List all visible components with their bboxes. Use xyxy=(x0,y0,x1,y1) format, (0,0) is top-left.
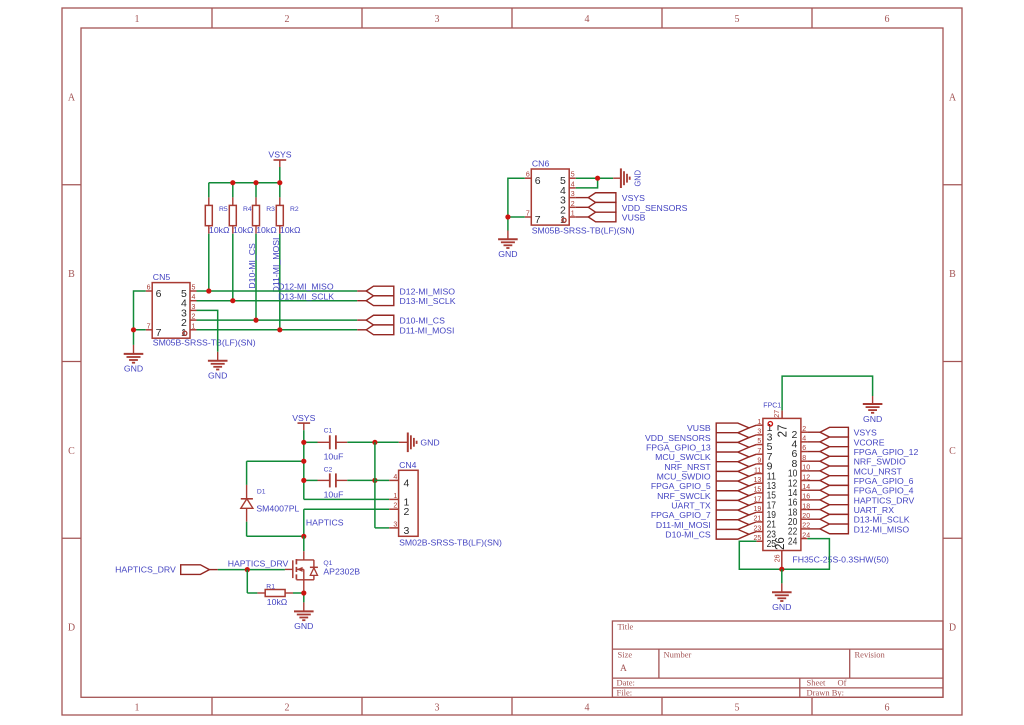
wire R2 to D11 net, label D11-MI_MOSI xyxy=(271,234,281,330)
svg-text:VUSB: VUSB xyxy=(687,423,711,433)
svg-text:Revision: Revision xyxy=(855,650,886,660)
svg-text:D13-MI_SCLK: D13-MI_SCLK xyxy=(400,296,456,306)
junction C2/CN4 pin4 xyxy=(372,478,377,483)
svg-text:2: 2 xyxy=(571,201,575,208)
svg-text:4: 4 xyxy=(404,477,410,489)
svg-text:5: 5 xyxy=(192,285,196,292)
svg-text:6: 6 xyxy=(885,703,890,714)
svg-text:4: 4 xyxy=(571,181,575,188)
svg-text:D10-MI_CS: D10-MI_CS xyxy=(400,316,446,326)
svg-text:7: 7 xyxy=(156,327,162,339)
svg-text:D10-MI_CS: D10-MI_CS xyxy=(247,243,257,289)
flag UART_RX (FPC1 pin 18) xyxy=(807,505,894,515)
junction C1/GND column xyxy=(372,440,377,445)
svg-text:SM02B-SRSS-TB(LF)(SN): SM02B-SRSS-TB(LF)(SN) xyxy=(399,538,502,548)
junction VSYS/D1 xyxy=(301,459,306,464)
svg-text:2: 2 xyxy=(404,506,410,518)
svg-text:3: 3 xyxy=(757,429,761,436)
svg-text:7: 7 xyxy=(757,448,761,455)
wire net D11-MI_MOSI xyxy=(197,329,358,331)
flag FPGA_GPIO_13 (FPC1 pin 5) xyxy=(646,442,756,452)
svg-text:10kΩ: 10kΩ xyxy=(280,225,301,235)
svg-text:23: 23 xyxy=(754,525,762,532)
svg-text:2: 2 xyxy=(393,503,397,510)
power VSYS (pullups) xyxy=(268,149,291,167)
svg-text:Drawn By:: Drawn By: xyxy=(807,687,845,697)
svg-text:3: 3 xyxy=(404,525,410,537)
svg-text:17: 17 xyxy=(754,496,762,503)
connector FPC1 FH35C-25S-0.3SHW(50) xyxy=(763,403,889,565)
junction HAPTICS node xyxy=(301,534,306,539)
wire pin27 to GND xyxy=(782,376,873,410)
svg-text:6: 6 xyxy=(147,285,151,292)
svg-text:7: 7 xyxy=(147,323,151,330)
svg-text:6: 6 xyxy=(535,175,541,187)
junction VSYS/C1 xyxy=(301,440,306,445)
flag FPGA_GPIO_7 (FPC1 pin 19) xyxy=(651,510,757,520)
svg-text:UART_RX: UART_RX xyxy=(854,505,895,515)
junction R4/pin4 xyxy=(230,298,235,303)
svg-text:10kΩ: 10kΩ xyxy=(256,225,277,235)
svg-text:3: 3 xyxy=(435,14,440,25)
junction CN6 pin7/GND xyxy=(505,214,510,219)
svg-text:Of: Of xyxy=(838,678,847,688)
flag VUSB (CN6 pin1) xyxy=(576,212,646,222)
flag VUSB (FPC1 pin 1) xyxy=(687,423,756,433)
svg-text:2: 2 xyxy=(285,14,290,25)
svg-text:C: C xyxy=(68,446,75,457)
ground GND (Q1 source) xyxy=(294,602,314,631)
svg-text:3: 3 xyxy=(571,191,575,198)
svg-text:B: B xyxy=(949,269,956,280)
svg-text:D: D xyxy=(949,623,956,634)
svg-text:D11-MI_MOSI: D11-MI_MOSI xyxy=(656,520,711,530)
svg-text:1: 1 xyxy=(192,323,196,330)
svg-text:GND: GND xyxy=(124,364,143,374)
svg-text:5: 5 xyxy=(571,172,575,179)
svg-text:Title: Title xyxy=(618,622,634,632)
wire HAPTICS_DRV to gate, label xyxy=(218,558,289,569)
svg-text:1: 1 xyxy=(560,214,566,226)
capacitor C1 10uF xyxy=(304,427,348,461)
svg-text:D12-MI_MISO: D12-MI_MISO xyxy=(278,282,334,292)
svg-text:B: B xyxy=(68,269,75,280)
svg-text:1: 1 xyxy=(135,14,140,25)
flag FPGA_GPIO_12 (FPC1 pin 6) xyxy=(807,447,918,457)
svg-text:NRF_SWCLK: NRF_SWCLK xyxy=(657,491,711,501)
svg-text:GND: GND xyxy=(633,170,643,187)
wire pin26 to GND xyxy=(781,569,783,583)
svg-text:10kΩ: 10kΩ xyxy=(267,597,288,607)
svg-text:VSYS: VSYS xyxy=(268,149,291,159)
junction source/R1/GND xyxy=(301,590,306,595)
ground GND (FPC1 bottom) xyxy=(772,583,792,612)
svg-text:SM05B-SRSS-TB(LF)(SN): SM05B-SRSS-TB(LF)(SN) xyxy=(532,226,635,236)
svg-text:5: 5 xyxy=(735,14,740,25)
svg-text:UART_TX: UART_TX xyxy=(671,500,711,510)
svg-text:7: 7 xyxy=(526,211,530,218)
svg-text:D11-MI_MOSI: D11-MI_MOSI xyxy=(400,325,455,335)
FPC1 left pins 1..25 xyxy=(754,419,777,550)
wire VSYS column xyxy=(304,430,389,499)
svg-text:FPGA_GPIO_5: FPGA_GPIO_5 xyxy=(651,481,711,491)
wire C1 to GND xyxy=(347,441,399,443)
svg-text:D12-MI_MISO: D12-MI_MISO xyxy=(400,287,456,297)
svg-text:D13-MI_SCLK: D13-MI_SCLK xyxy=(278,292,334,302)
svg-text:VCORE: VCORE xyxy=(854,437,885,447)
svg-text:C1: C1 xyxy=(324,427,333,434)
svg-text:CN5: CN5 xyxy=(153,272,171,282)
svg-text:NRF_NRST: NRF_NRST xyxy=(664,462,711,472)
svg-text:1: 1 xyxy=(393,493,397,500)
svg-text:HAPTICS_DRV: HAPTICS_DRV xyxy=(854,495,915,505)
svg-text:13: 13 xyxy=(754,477,762,484)
svg-text:VUSB: VUSB xyxy=(622,213,646,223)
svg-text:5: 5 xyxy=(757,438,761,445)
FPC1 right pins 2..24 xyxy=(788,426,810,547)
wire HAPTICS to Q1 drain xyxy=(303,536,305,551)
svg-text:5: 5 xyxy=(735,703,740,714)
svg-text:3: 3 xyxy=(435,703,440,714)
svg-text:GND: GND xyxy=(294,621,313,631)
svg-text:VSYS: VSYS xyxy=(622,193,645,203)
wire gate to R1 xyxy=(247,570,257,593)
svg-text:CN4: CN4 xyxy=(399,460,417,470)
flag D13-MI_SCLK xyxy=(357,296,456,306)
FPC1 pin 27 (top) xyxy=(774,410,790,438)
junction VSYS/C2 xyxy=(301,478,306,483)
svg-text:2: 2 xyxy=(285,703,290,714)
connector CN6 SM05B-SRSS-TB(LF)(SN) xyxy=(525,159,635,236)
svg-text:6: 6 xyxy=(802,445,806,452)
flag NRF_SWDIO (FPC1 pin 8) xyxy=(807,456,906,466)
svg-text:AP2302B: AP2302B xyxy=(323,567,360,577)
svg-text:1: 1 xyxy=(181,327,187,339)
svg-text:VSYS: VSYS xyxy=(292,413,315,423)
wire pin24 wrap to GND xyxy=(782,539,830,570)
svg-text:D1: D1 xyxy=(257,488,266,495)
wire R4 to D13 net xyxy=(232,234,234,301)
svg-text:3: 3 xyxy=(393,521,397,528)
wire CN6 pin5/pin4 to GND tap xyxy=(576,178,614,188)
wire D1 to HAPTICS node xyxy=(247,522,304,537)
svg-text:FPGA_GPIO_4: FPGA_GPIO_4 xyxy=(854,486,914,496)
svg-text:D: D xyxy=(68,623,75,634)
FPC1 pin 26 (bottom) xyxy=(773,537,787,569)
svg-text:1: 1 xyxy=(571,211,575,218)
svg-text:R3: R3 xyxy=(266,206,275,213)
svg-text:FPGA_GPIO_13: FPGA_GPIO_13 xyxy=(646,442,711,452)
wire CN4 pin2 to HAPTICS node, label HAPTICS xyxy=(304,509,389,536)
svg-text:7: 7 xyxy=(535,214,541,226)
svg-text:Number: Number xyxy=(664,650,692,660)
ground GND (CN6 left) xyxy=(498,231,518,260)
svg-text:D12-MI_MISO: D12-MI_MISO xyxy=(854,524,910,534)
ground GND (CN5 pin3) xyxy=(208,352,228,381)
svg-text:4: 4 xyxy=(802,436,806,443)
svg-text:GND: GND xyxy=(420,438,439,448)
svg-text:A: A xyxy=(620,664,627,674)
flag FPGA_GPIO_6 (FPC1 pin 12) xyxy=(807,476,913,486)
flag D11-MI_MOSI xyxy=(357,325,454,335)
svg-text:4: 4 xyxy=(393,474,397,481)
resistor R5 10k xyxy=(205,197,230,234)
svg-text:10uF: 10uF xyxy=(324,489,344,499)
svg-text:VSYS: VSYS xyxy=(854,428,877,438)
resistor R4 10k xyxy=(229,197,254,234)
connector CN5 SM05B-SRSS-TB(LF)(SN) xyxy=(146,272,256,347)
junction pin26/GND xyxy=(779,567,784,572)
svg-text:GND: GND xyxy=(863,414,882,424)
wire R1/source to GND xyxy=(293,590,304,602)
resistor R3 10k xyxy=(253,197,278,234)
svg-text:6: 6 xyxy=(526,172,530,179)
junction CN6 pin5/pin4 xyxy=(595,176,600,181)
svg-text:Size: Size xyxy=(618,650,633,660)
svg-text:File:: File: xyxy=(617,687,633,697)
svg-text:27: 27 xyxy=(774,410,781,418)
svg-text:VDD_SENSORS: VDD_SENSORS xyxy=(622,203,688,213)
diode D1 SM4007PL xyxy=(241,461,304,522)
transistor Q1 AP2302B (n-mosfet) xyxy=(285,551,360,590)
svg-text:21: 21 xyxy=(754,516,762,523)
wire CN5 pin6-pin7 to GND xyxy=(134,291,146,345)
wire pin25 wrap to GND xyxy=(739,541,782,569)
flag D13-MI_SCLK (FPC1 pin 20) xyxy=(807,514,909,524)
svg-text:A: A xyxy=(68,92,76,103)
svg-text:GND: GND xyxy=(208,371,227,381)
svg-text:HAPTICS: HAPTICS xyxy=(306,517,344,527)
wire R3 to D10 net, label D10-MI_CS xyxy=(247,234,257,320)
svg-text:R1: R1 xyxy=(266,583,275,590)
svg-text:6: 6 xyxy=(885,14,890,25)
svg-text:GND: GND xyxy=(498,249,517,259)
svg-text:11: 11 xyxy=(754,467,761,474)
resistor R2 10k xyxy=(276,197,301,234)
connector CN4 SM02B-SRSS-TB(LF)(SN) xyxy=(389,460,502,548)
flag VDD_SENSORS (CN6 pin2) xyxy=(576,202,688,212)
svg-text:GND: GND xyxy=(772,602,791,612)
junction CN5 pin7/GND xyxy=(131,327,136,332)
flag D12-MI_MISO (FPC1 pin 22) xyxy=(807,524,909,534)
svg-text:A: A xyxy=(949,92,957,103)
svg-text:4: 4 xyxy=(192,294,196,301)
svg-text:FPC1: FPC1 xyxy=(763,403,781,410)
power VSYS (haptics) xyxy=(292,413,315,430)
wire pullup bus xyxy=(209,183,280,198)
svg-text:MCU_SWDIO: MCU_SWDIO xyxy=(657,471,711,481)
flag D10-MI_CS (FPC1 pin 23) xyxy=(665,529,756,539)
wire VSYS to pullup bus xyxy=(279,167,281,183)
svg-text:C: C xyxy=(949,446,956,457)
flag MCU_SWCLK (FPC1 pin 7) xyxy=(655,452,756,462)
svg-text:Date:: Date: xyxy=(617,678,635,688)
svg-text:HAPTICS_DRV: HAPTICS_DRV xyxy=(228,558,289,568)
flag MCU_SWDIO (FPC1 pin 11) xyxy=(657,471,757,481)
svg-text:MCU_SWCLK: MCU_SWCLK xyxy=(655,452,711,462)
flag FPGA_GPIO_5 (FPC1 pin 13) xyxy=(651,481,757,491)
svg-text:19: 19 xyxy=(754,506,762,513)
svg-text:VDD_SENSORS: VDD_SENSORS xyxy=(645,433,711,443)
junction R2/pin1 xyxy=(277,327,282,332)
svg-text:FPGA_GPIO_6: FPGA_GPIO_6 xyxy=(854,476,914,486)
svg-text:4: 4 xyxy=(585,14,590,25)
junction bus/R4 xyxy=(230,180,235,185)
junction bus/R3 xyxy=(253,180,258,185)
svg-text:15: 15 xyxy=(754,487,762,494)
svg-text:4: 4 xyxy=(585,703,590,714)
flag VCORE (FPC1 pin 4) xyxy=(807,437,884,447)
svg-text:D10-MI_CS: D10-MI_CS xyxy=(665,529,711,539)
wire CN5 pin3 to GND xyxy=(197,310,218,351)
svg-text:8: 8 xyxy=(802,455,806,462)
svg-text:2: 2 xyxy=(802,426,806,433)
svg-text:2: 2 xyxy=(192,314,196,321)
flag D11-MI_MOSI (FPC1 pin 21) xyxy=(656,520,757,530)
svg-text:Sheet: Sheet xyxy=(807,678,827,688)
svg-text:6: 6 xyxy=(156,288,162,300)
svg-text:FH35C-25S-0.3SHW(50): FH35C-25S-0.3SHW(50) xyxy=(792,555,889,565)
flag D12-MI_MISO xyxy=(357,286,455,296)
title block xyxy=(612,621,943,697)
junction gate/R1 xyxy=(245,567,250,572)
flag D10-MI_CS xyxy=(357,315,445,325)
wire net D12-MI_MISO, label xyxy=(197,282,358,292)
svg-text:24: 24 xyxy=(788,535,798,547)
svg-text:FPGA_GPIO_12: FPGA_GPIO_12 xyxy=(854,447,919,457)
svg-text:FPGA_GPIO_7: FPGA_GPIO_7 xyxy=(651,510,711,520)
flag NRF_SWCLK (FPC1 pin 15) xyxy=(657,491,756,501)
capacitor C2 10uF xyxy=(304,466,375,499)
svg-text:26: 26 xyxy=(775,554,782,562)
svg-text:MCU_NRST: MCU_NRST xyxy=(854,466,903,476)
junction bus/R2 xyxy=(277,180,282,185)
svg-text:3: 3 xyxy=(192,304,196,311)
svg-text:26: 26 xyxy=(773,537,787,550)
ground GND (CN6 right tap) xyxy=(613,168,643,188)
svg-text:1: 1 xyxy=(135,703,140,714)
flag MCU_NRST (FPC1 pin 10) xyxy=(807,466,902,476)
svg-text:NRF_SWDIO: NRF_SWDIO xyxy=(854,457,906,467)
svg-text:D13-MI_SCLK: D13-MI_SCLK xyxy=(854,515,910,525)
svg-text:9: 9 xyxy=(757,458,761,465)
junction R5/pin5 xyxy=(206,288,211,293)
flag HAPTICS_DRV (FPC1 pin 16) xyxy=(807,495,914,505)
svg-text:HAPTICS_DRV: HAPTICS_DRV xyxy=(115,564,176,574)
svg-text:10kΩ: 10kΩ xyxy=(233,225,254,235)
wire net D10-MI_CS xyxy=(197,319,358,321)
ground GND (FPC1 top) xyxy=(863,396,883,424)
flag NRF_NRST (FPC1 pin 9) xyxy=(664,462,756,472)
svg-text:27: 27 xyxy=(776,425,790,438)
svg-text:C2: C2 xyxy=(324,466,333,473)
flag VSYS (FPC1 pin 2) xyxy=(807,427,877,437)
junction R3/pin2 xyxy=(253,318,258,323)
flag FPGA_GPIO_4 (FPC1 pin 14) xyxy=(807,485,913,495)
flag HAPTICS_DRV (gate) xyxy=(115,564,218,574)
svg-text:SM05B-SRSS-TB(LF)(SN): SM05B-SRSS-TB(LF)(SN) xyxy=(153,337,256,347)
svg-text:R4: R4 xyxy=(243,206,252,213)
flag UART_TX (FPC1 pin 17) xyxy=(671,500,756,510)
wire R5 to D12 net xyxy=(208,234,210,291)
svg-text:CN6: CN6 xyxy=(532,159,550,169)
resistor R1 10k xyxy=(257,583,293,607)
svg-text:SM4007PL: SM4007PL xyxy=(256,504,299,514)
flag VDD_SENSORS (FPC1 pin 3) xyxy=(645,433,756,443)
svg-text:R2: R2 xyxy=(290,206,299,213)
ground GND (CN5 left) xyxy=(124,345,144,374)
svg-text:1: 1 xyxy=(757,419,761,426)
svg-text:10kΩ: 10kΩ xyxy=(209,225,230,235)
svg-text:R5: R5 xyxy=(219,206,228,213)
wire GND column to CN4 pins 4,3 xyxy=(375,442,389,528)
wire net D13-MI_SCLK, label xyxy=(197,292,358,302)
svg-text:10uF: 10uF xyxy=(324,452,344,462)
wire CN6 pin6-pin7 to GND xyxy=(508,178,525,230)
flag VSYS (CN6 pin3) xyxy=(576,193,645,203)
ground GND (C1 tap) xyxy=(399,433,440,453)
